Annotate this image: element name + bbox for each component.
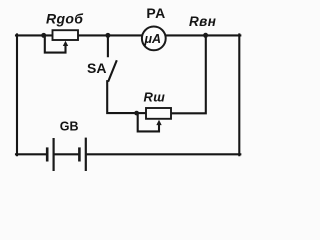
- svg-text:Rgoб: Rgoб: [46, 11, 83, 27]
- wire: Rdob wiper tap loop: [45, 37, 66, 53]
- battery GB cell1 negative plate: [46, 147, 49, 161]
- svg-text:SA: SA: [87, 60, 106, 76]
- junction node at shunt branch: [134, 111, 139, 116]
- junction node Rvn: [203, 33, 208, 38]
- arrowhead of Rdob wiper: [63, 41, 68, 46]
- arrowhead of Rsh wiper: [156, 120, 161, 125]
- junction node at Rdob left terminal: [41, 33, 46, 38]
- wire: switch upper stub: [107, 35, 109, 56]
- battery GB cell2 negative plate: [78, 147, 81, 161]
- svg-text:μA: μA: [144, 32, 162, 46]
- wire: bottom left segment (left corner to battery): [16, 153, 46, 155]
- wire: Rsh left stub: [137, 112, 147, 114]
- wire: top, corner to Rdob left: [16, 34, 54, 36]
- wire: left side of loop: [16, 34, 18, 155]
- resistor Rdob body: [53, 30, 79, 40]
- wire: bottom segment between battery cells: [55, 153, 79, 155]
- svg-text:Rвн: Rвн: [189, 14, 216, 29]
- switch SA blade (open): [109, 61, 117, 81]
- svg-text:GB: GB: [60, 119, 79, 133]
- wire: top, ammeter right to top-right corner: [166, 34, 241, 36]
- resistor Rsh body: [146, 108, 171, 119]
- junction node at switch tap on top wire: [105, 33, 110, 38]
- wire: top, Rdob right to ammeter: [78, 34, 143, 36]
- wire: Rsh right, up to Rvn node: [171, 35, 206, 114]
- battery GB cell2 positive plate: [85, 138, 87, 171]
- wire: right side of loop: [238, 34, 240, 155]
- wire: Rsh wiper tap loop: [138, 114, 159, 131]
- wire: switch lower stub down and right to shunt node: [107, 81, 136, 113]
- ammeter PA body: [142, 27, 166, 51]
- wire: bottom right segment (battery to right corner): [87, 153, 240, 155]
- svg-text:Rш: Rш: [144, 89, 166, 104]
- battery GB cell1 positive plate: [52, 138, 54, 171]
- svg-text:PA: PA: [146, 5, 165, 21]
